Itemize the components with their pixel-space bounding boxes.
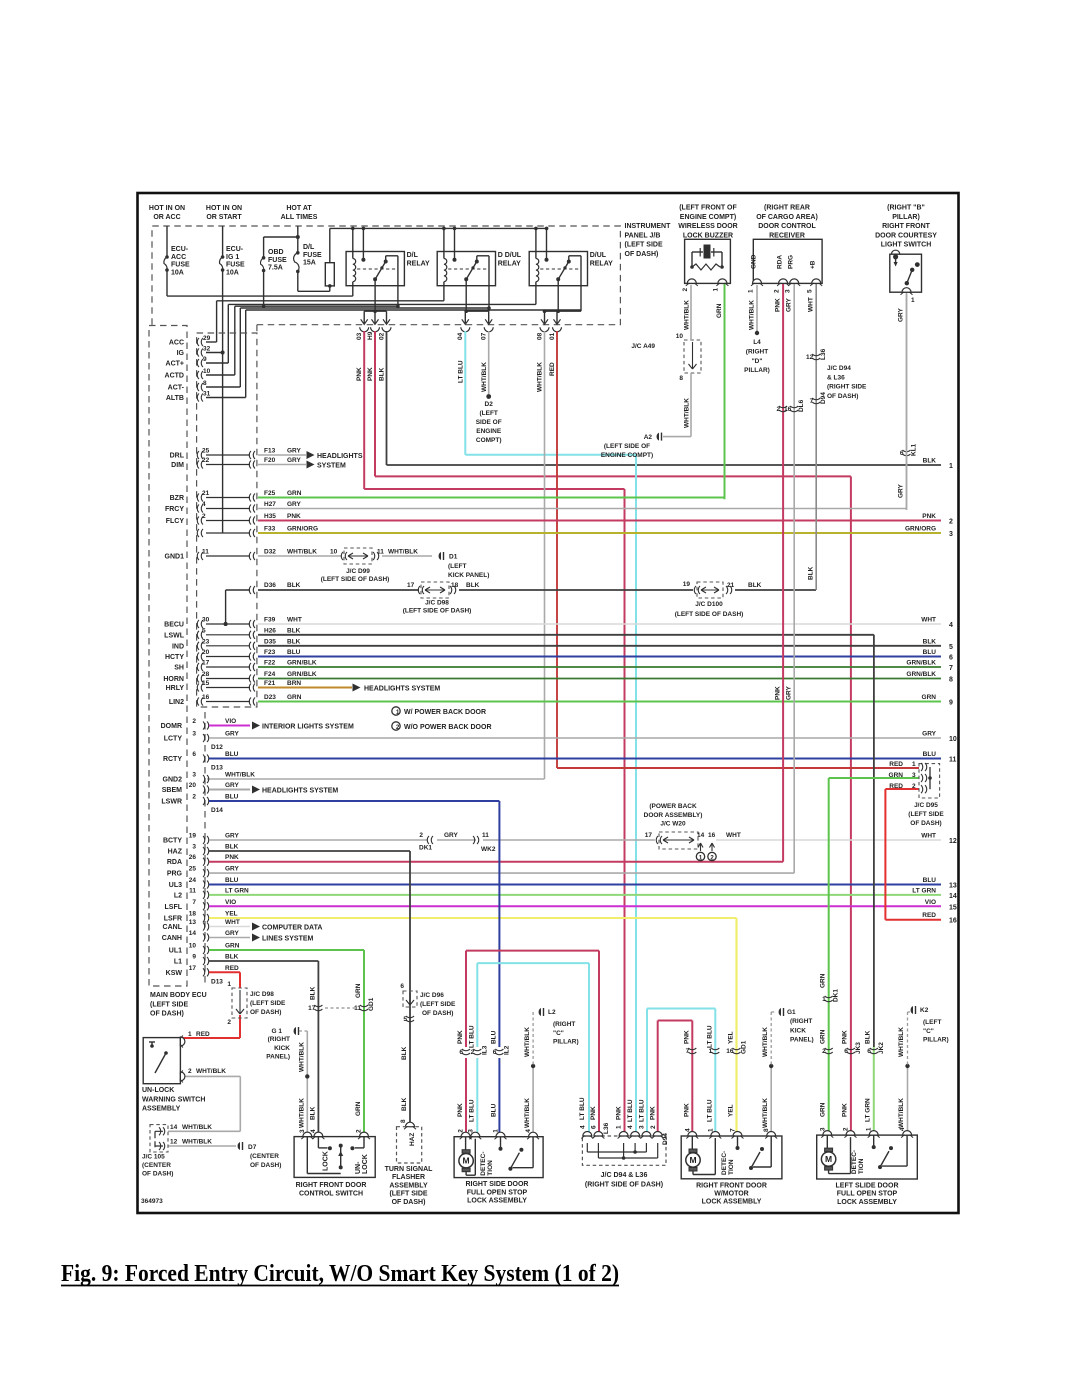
svg-text:PRG: PRG — [788, 255, 795, 269]
svg-text:RELAY: RELAY — [590, 261, 613, 268]
svg-text:8: 8 — [400, 1119, 407, 1123]
svg-text:"C": "C" — [553, 1030, 564, 1037]
svg-text:BLK: BLK — [808, 566, 815, 580]
svg-text:(LEFT SIDE: (LEFT SIDE — [389, 1191, 427, 1198]
svg-text:RIGHT FRONT: RIGHT FRONT — [882, 223, 931, 230]
svg-text:YEL: YEL — [225, 911, 238, 918]
svg-text:PNK: PNK — [590, 1106, 597, 1120]
svg-text:LT BLU: LT BLU — [706, 1025, 713, 1048]
svg-text:DETEC-: DETEC- — [721, 1151, 728, 1175]
svg-text:6: 6 — [591, 1125, 598, 1129]
svg-text:1: 1 — [713, 288, 720, 292]
svg-text:F21: F21 — [264, 680, 276, 687]
svg-text:14: 14 — [949, 893, 957, 900]
svg-text:(RIGHT: (RIGHT — [553, 1021, 575, 1028]
svg-text:1: 1 — [912, 761, 916, 768]
svg-text:GRY: GRY — [225, 833, 240, 840]
svg-text:PNK: PNK — [775, 686, 782, 700]
svg-text:BLK: BLK — [865, 1030, 872, 1044]
svg-text:GND2: GND2 — [163, 777, 183, 784]
svg-text:W/ POWER BACK DOOR: W/ POWER BACK DOOR — [404, 709, 486, 716]
svg-text:WK2: WK2 — [481, 846, 496, 853]
svg-text:TION: TION — [858, 1158, 865, 1174]
svg-text:BLK: BLK — [287, 627, 301, 634]
svg-text:F39: F39 — [264, 617, 276, 624]
svg-text:8: 8 — [679, 375, 683, 382]
svg-text:D94: D94 — [662, 1133, 669, 1145]
svg-text:3: 3 — [192, 731, 196, 738]
svg-text:BLK: BLK — [748, 582, 762, 589]
svg-text:(CENTER: (CENTER — [250, 1153, 279, 1160]
svg-text:UL1: UL1 — [169, 948, 182, 955]
svg-text:9: 9 — [949, 700, 953, 707]
svg-text:VIO: VIO — [225, 899, 236, 906]
svg-text:D12: D12 — [211, 744, 223, 751]
svg-text:(LEFT SIDE: (LEFT SIDE — [250, 1000, 286, 1007]
svg-text:LCTY: LCTY — [164, 736, 183, 743]
svg-text:(LEFT: (LEFT — [479, 410, 497, 417]
svg-text:24: 24 — [189, 877, 197, 884]
svg-text:14: 14 — [697, 832, 705, 839]
svg-text:26: 26 — [189, 854, 197, 861]
svg-text:1: 1 — [911, 297, 915, 304]
svg-text:LT GRN: LT GRN — [225, 887, 249, 894]
svg-text:7: 7 — [686, 1048, 690, 1055]
svg-text:6: 6 — [192, 751, 196, 758]
svg-text:(CENTER: (CENTER — [142, 1162, 171, 1169]
svg-text:CANL: CANL — [163, 924, 183, 931]
svg-text:ACTD: ACTD — [165, 373, 184, 380]
svg-text:PNK: PNK — [457, 1103, 464, 1117]
svg-text:D2: D2 — [485, 401, 494, 408]
svg-text:10: 10 — [189, 943, 197, 950]
svg-text:3: 3 — [912, 772, 916, 779]
svg-text:DOOR COURTESY: DOOR COURTESY — [875, 232, 937, 239]
svg-text:GRN: GRN — [820, 1102, 827, 1117]
svg-text:CANH: CANH — [162, 935, 182, 942]
svg-text:16: 16 — [202, 694, 210, 701]
svg-text:LT BLU: LT BLU — [468, 1099, 475, 1122]
svg-text:10: 10 — [203, 368, 211, 375]
svg-text:5: 5 — [202, 627, 206, 634]
svg-text:3: 3 — [299, 1129, 306, 1133]
svg-text:GRN: GRN — [820, 1029, 827, 1044]
svg-text:6: 6 — [867, 1048, 871, 1055]
svg-text:8: 8 — [949, 677, 953, 684]
svg-text:2: 2 — [471, 1049, 475, 1056]
svg-text:WHT/BLK: WHT/BLK — [524, 1027, 531, 1057]
svg-text:15: 15 — [949, 904, 957, 911]
svg-text:7: 7 — [192, 899, 196, 906]
svg-text:OR START: OR START — [206, 214, 242, 221]
svg-text:FRCY: FRCY — [165, 506, 184, 513]
svg-text:RED: RED — [196, 1031, 210, 1038]
svg-text:KL1: KL1 — [911, 443, 918, 456]
svg-text:2: 2 — [192, 718, 196, 725]
svg-text:OBD: OBD — [268, 249, 284, 256]
svg-text:BLK: BLK — [225, 844, 239, 851]
svg-text:PNK: PNK — [356, 367, 363, 381]
svg-text:BCTY: BCTY — [163, 838, 182, 845]
svg-text:J/C D98: J/C D98 — [425, 600, 449, 607]
svg-text:(RIGHT: (RIGHT — [746, 349, 768, 356]
svg-text:30: 30 — [202, 617, 210, 624]
svg-text:RELAY: RELAY — [407, 261, 430, 268]
svg-text:LSWL: LSWL — [164, 632, 185, 639]
svg-text:PNK: PNK — [457, 1030, 464, 1044]
svg-text:COMPUTER DATA: COMPUTER DATA — [262, 925, 322, 932]
svg-text:F25: F25 — [264, 490, 276, 497]
svg-text:14: 14 — [189, 930, 197, 937]
svg-text:1: 1 — [709, 1048, 713, 1055]
svg-text:3: 3 — [639, 1125, 646, 1129]
svg-text:2: 2 — [356, 1129, 363, 1133]
svg-text:(LEFT: (LEFT — [923, 1019, 941, 1026]
svg-text:6: 6 — [459, 1049, 463, 1056]
svg-text:WHT/BLK: WHT/BLK — [225, 772, 255, 779]
svg-text:ALTB: ALTB — [166, 395, 184, 402]
svg-text:H9: H9 — [367, 331, 374, 340]
svg-text:D7: D7 — [248, 1144, 257, 1151]
svg-text:PILLAR): PILLAR) — [553, 1039, 579, 1046]
svg-text:9: 9 — [192, 954, 196, 961]
svg-text:ACC: ACC — [171, 254, 186, 261]
svg-text:JK3: JK3 — [855, 1042, 862, 1054]
svg-text:J/C 105: J/C 105 — [142, 1154, 165, 1161]
svg-text:ENGINE COMPT): ENGINE COMPT) — [601, 452, 653, 459]
svg-text:G 1: G 1 — [272, 1028, 283, 1035]
svg-text:D14: D14 — [211, 807, 223, 814]
svg-text:1: 1 — [822, 996, 826, 1003]
svg-text:WHT: WHT — [225, 919, 240, 926]
svg-text:K2: K2 — [920, 1007, 929, 1014]
svg-text:(LEFT SIDE: (LEFT SIDE — [420, 1001, 456, 1008]
svg-text:(LEFT SIDE OF DASH): (LEFT SIDE OF DASH) — [321, 576, 390, 583]
svg-text:YEL: YEL — [728, 1104, 735, 1117]
svg-text:GRY: GRY — [922, 731, 937, 738]
svg-text:HRLY: HRLY — [166, 685, 185, 692]
svg-text:10: 10 — [330, 549, 338, 556]
svg-text:6: 6 — [844, 1048, 848, 1055]
svg-text:GRY: GRY — [444, 832, 459, 839]
svg-text:14: 14 — [170, 1124, 178, 1131]
svg-text:ECU-: ECU- — [226, 246, 244, 253]
svg-text:OF DASH): OF DASH) — [142, 1171, 173, 1178]
svg-text:GRY: GRY — [225, 930, 240, 937]
svg-text:LEFT SLIDE DOOR: LEFT SLIDE DOOR — [836, 1183, 899, 1190]
svg-text:11: 11 — [354, 1005, 361, 1012]
svg-text:RECEIVER: RECEIVER — [769, 232, 805, 239]
svg-text:PILLAR): PILLAR) — [744, 367, 770, 374]
svg-text:TION: TION — [728, 1159, 735, 1175]
svg-text:J/C D98: J/C D98 — [250, 991, 274, 998]
svg-text:COMPT): COMPT) — [476, 437, 502, 444]
svg-text:31: 31 — [203, 391, 211, 398]
svg-text:GRN: GRN — [355, 983, 362, 998]
svg-text:LT BLU: LT BLU — [706, 1099, 713, 1122]
svg-text:(RIGHT: (RIGHT — [790, 1018, 812, 1025]
svg-text:7: 7 — [810, 398, 814, 405]
svg-text:12: 12 — [949, 838, 957, 845]
svg-text:BLK: BLK — [309, 986, 316, 1000]
svg-text:PILLAR): PILLAR) — [923, 1037, 949, 1044]
svg-text:4: 4 — [525, 1129, 532, 1133]
svg-text:WHT/BLK: WHT/BLK — [481, 362, 488, 392]
svg-text:(RIGHT REAR: (RIGHT REAR — [764, 205, 810, 212]
svg-text:BLK: BLK — [287, 582, 301, 589]
svg-text:OF CARGO AREA): OF CARGO AREA) — [756, 214, 818, 221]
svg-text:M: M — [825, 1154, 832, 1164]
svg-text:D13: D13 — [211, 765, 223, 772]
svg-text:CONTROL SWITCH: CONTROL SWITCH — [299, 1190, 363, 1197]
svg-text:PNK: PNK — [842, 1103, 849, 1117]
svg-text:2: 2 — [650, 1125, 657, 1129]
svg-text:IG 1: IG 1 — [226, 254, 239, 261]
svg-text:L36: L36 — [820, 348, 827, 360]
svg-text:(LEFT FRONT OF: (LEFT FRONT OF — [679, 205, 737, 212]
svg-text:PNK: PNK — [225, 854, 239, 861]
svg-text:2: 2 — [912, 783, 916, 790]
svg-text:6: 6 — [493, 1049, 497, 1056]
svg-text:2: 2 — [188, 1068, 192, 1075]
svg-text:12: 12 — [170, 1139, 178, 1146]
svg-text:FULL OPEN STOP: FULL OPEN STOP — [467, 1189, 528, 1196]
svg-text:WHT/BLK: WHT/BLK — [762, 1027, 769, 1057]
svg-text:28: 28 — [202, 671, 210, 678]
svg-text:J/C D100: J/C D100 — [695, 601, 723, 608]
svg-text:PNK: PNK — [287, 513, 301, 520]
svg-text:GRN/BLK: GRN/BLK — [287, 671, 317, 678]
svg-text:BLU: BLU — [287, 649, 301, 656]
svg-text:GRY: GRY — [287, 457, 302, 464]
svg-text:BLU: BLU — [923, 751, 937, 758]
svg-text:D D/UL: D D/UL — [498, 252, 522, 259]
svg-text:BLU: BLU — [923, 877, 937, 884]
svg-text:PNK: PNK — [683, 1030, 690, 1044]
svg-text:19: 19 — [683, 581, 691, 588]
svg-text:BLK: BLK — [401, 1097, 408, 1111]
svg-text:D1: D1 — [449, 554, 458, 561]
svg-text:GRY: GRY — [225, 731, 240, 738]
svg-text:SIDE OF: SIDE OF — [476, 419, 502, 426]
svg-text:WHT/BLK: WHT/BLK — [898, 1027, 905, 1057]
svg-text:ACT-: ACT- — [168, 385, 185, 392]
svg-text:D13: D13 — [211, 978, 223, 985]
svg-text:2: 2 — [682, 288, 689, 292]
svg-text:5: 5 — [807, 289, 814, 293]
svg-text:07: 07 — [481, 332, 488, 340]
svg-text:ACC: ACC — [169, 340, 184, 347]
svg-text:10A: 10A — [226, 269, 239, 276]
svg-text:GRN/BLK: GRN/BLK — [287, 660, 317, 667]
svg-text:FUSE: FUSE — [226, 262, 245, 269]
svg-text:UL3: UL3 — [169, 882, 182, 889]
svg-text:MAIN BODY ECU: MAIN BODY ECU — [150, 992, 207, 999]
svg-text:J/C D95: J/C D95 — [914, 802, 938, 809]
svg-text:WHT/BLK: WHT/BLK — [298, 1098, 305, 1128]
svg-text:(LEFT SIDE OF: (LEFT SIDE OF — [604, 443, 650, 450]
svg-text:GRN/BLK: GRN/BLK — [906, 660, 936, 667]
svg-text:IND: IND — [172, 643, 184, 650]
svg-text:LOCK BUZZER: LOCK BUZZER — [683, 232, 733, 239]
svg-text:PNK: PNK — [922, 513, 936, 520]
svg-text:12: 12 — [806, 354, 814, 361]
svg-text:SBEM: SBEM — [162, 787, 182, 794]
svg-text:20: 20 — [189, 782, 197, 789]
svg-text:2: 2 — [776, 406, 780, 413]
svg-text:LT BLU: LT BLU — [627, 1099, 634, 1122]
svg-text:GRN/BLK: GRN/BLK — [906, 671, 936, 678]
svg-text:PNK: PNK — [367, 367, 374, 381]
svg-text:(LEFT SIDE: (LEFT SIDE — [908, 811, 944, 818]
svg-text:D23: D23 — [264, 694, 276, 701]
svg-text:KSW: KSW — [166, 970, 183, 977]
svg-text:HEADLIGHTS SYSTEM: HEADLIGHTS SYSTEM — [364, 686, 440, 693]
svg-text:RDA: RDA — [167, 859, 182, 866]
svg-text:OF DASH): OF DASH) — [625, 251, 659, 258]
svg-text:02: 02 — [378, 332, 385, 340]
svg-text:04: 04 — [457, 332, 464, 340]
svg-text:HEADLIGHTS SYSTEM: HEADLIGHTS SYSTEM — [262, 788, 338, 795]
svg-text:11: 11 — [202, 549, 209, 556]
svg-text:2: 2 — [822, 1048, 826, 1055]
svg-text:HOT IN ON: HOT IN ON — [206, 205, 242, 212]
svg-text:M: M — [689, 1155, 696, 1165]
svg-text:1: 1 — [748, 289, 755, 293]
svg-text:1: 1 — [707, 1128, 714, 1132]
svg-text:LOCK: LOCK — [323, 1151, 330, 1171]
svg-text:HAZ: HAZ — [168, 849, 183, 856]
svg-text:DRL: DRL — [170, 453, 185, 460]
svg-text:15: 15 — [202, 680, 210, 687]
svg-text:DL6: DL6 — [798, 399, 805, 412]
svg-text:16: 16 — [949, 918, 957, 925]
svg-text:BLU: BLU — [923, 649, 937, 656]
svg-text:J/C D94: J/C D94 — [827, 365, 851, 372]
svg-text:1: 1 — [616, 1125, 623, 1129]
svg-text:18: 18 — [451, 582, 459, 589]
svg-text:7: 7 — [730, 1128, 737, 1132]
svg-text:LT BLU: LT BLU — [638, 1099, 645, 1122]
svg-text:PNK: PNK — [842, 1030, 849, 1044]
svg-text:OF DASH): OF DASH) — [422, 1010, 453, 1017]
svg-text:+B: +B — [810, 260, 817, 269]
svg-text:WHT: WHT — [921, 617, 936, 624]
svg-text:INSTRUMENT: INSTRUMENT — [625, 223, 672, 230]
svg-text:VIO: VIO — [225, 718, 236, 725]
svg-text:FULL OPEN STOP: FULL OPEN STOP — [837, 1191, 898, 1198]
svg-text:GRN: GRN — [355, 1101, 362, 1116]
svg-text:DETEC-: DETEC- — [851, 1150, 858, 1174]
svg-text:BLU: BLU — [490, 1103, 497, 1117]
svg-text:DETEC-: DETEC- — [480, 1151, 487, 1175]
svg-text:11: 11 — [482, 832, 489, 839]
svg-text:KICK: KICK — [790, 1027, 806, 1034]
svg-text:BLK: BLK — [466, 582, 480, 589]
svg-text:LINES SYSTEM: LINES SYSTEM — [262, 936, 314, 943]
svg-text:1: 1 — [493, 1129, 500, 1133]
svg-text:17: 17 — [308, 1005, 316, 1012]
svg-text:17: 17 — [202, 660, 210, 667]
svg-text:(RIGHT SIDE OF DASH): (RIGHT SIDE OF DASH) — [585, 1181, 663, 1188]
svg-text:DK1: DK1 — [833, 989, 840, 1002]
svg-text:4: 4 — [899, 1127, 906, 1131]
svg-text:LOCK ASSEMBLY: LOCK ASSEMBLY — [702, 1199, 762, 1206]
svg-text:PNK: PNK — [616, 1106, 623, 1120]
svg-text:BLU: BLU — [225, 794, 239, 801]
svg-text:IL2: IL2 — [503, 1045, 510, 1055]
svg-text:LOCK ASSEMBLY: LOCK ASSEMBLY — [467, 1198, 527, 1205]
svg-text:PNK: PNK — [683, 1103, 690, 1117]
svg-text:D/UL: D/UL — [590, 252, 607, 259]
svg-text:WHT: WHT — [921, 833, 936, 840]
svg-text:22: 22 — [202, 457, 210, 464]
svg-text:FUSE: FUSE — [171, 262, 190, 269]
svg-text:DOMR: DOMR — [161, 723, 182, 730]
svg-text:WHT: WHT — [726, 832, 741, 839]
svg-text:WHT/BLK: WHT/BLK — [684, 300, 691, 330]
svg-text:GRN: GRN — [716, 303, 723, 318]
svg-text:(LEFT SIDE: (LEFT SIDE — [150, 1001, 188, 1008]
svg-text:13: 13 — [189, 919, 197, 926]
svg-text:GRN: GRN — [225, 943, 240, 950]
svg-text:Fig. 9: Forced Entry Circuit,: Fig. 9: Forced Entry Circuit, W/O Smart … — [61, 1261, 619, 1287]
svg-text:BLK: BLK — [287, 638, 301, 645]
svg-text:3: 3 — [467, 1129, 474, 1133]
svg-text:OF DASH): OF DASH) — [250, 1162, 281, 1169]
svg-text:HORN: HORN — [163, 676, 184, 683]
svg-text:H27: H27 — [264, 501, 276, 508]
svg-text:SH: SH — [174, 665, 184, 672]
svg-text:GRY: GRY — [786, 297, 793, 312]
svg-text:6: 6 — [900, 450, 904, 457]
svg-text:BLK: BLK — [379, 367, 386, 381]
svg-text:WHT/BLK: WHT/BLK — [196, 1068, 226, 1075]
svg-text:D36: D36 — [264, 582, 276, 589]
svg-text:GRY: GRY — [287, 448, 302, 455]
svg-text:WHT: WHT — [808, 297, 815, 312]
svg-text:17: 17 — [645, 832, 653, 839]
svg-text:LSWR: LSWR — [161, 799, 182, 806]
svg-text:JK2: JK2 — [878, 1042, 885, 1054]
svg-text:6: 6 — [400, 983, 404, 990]
svg-text:WIRELESS DOOR: WIRELESS DOOR — [678, 223, 738, 230]
svg-text:WHT/BLK: WHT/BLK — [182, 1124, 212, 1131]
svg-text:GRY: GRY — [225, 866, 240, 873]
svg-text:RED: RED — [549, 362, 556, 376]
svg-text:ECU-: ECU- — [171, 246, 189, 253]
svg-text:2: 2 — [192, 794, 196, 801]
svg-text:10: 10 — [949, 736, 957, 743]
svg-text:ENGINE: ENGINE — [476, 428, 502, 435]
svg-text:LIN2: LIN2 — [169, 699, 184, 706]
svg-text:OF DASH): OF DASH) — [910, 820, 941, 827]
svg-text:DIM: DIM — [171, 462, 184, 469]
svg-text:FUSE: FUSE — [303, 252, 322, 259]
svg-text:4: 4 — [580, 1125, 587, 1129]
svg-text:10A: 10A — [171, 269, 184, 276]
svg-text:GRY: GRY — [786, 685, 793, 700]
svg-text:RED: RED — [889, 761, 903, 768]
svg-text:PANEL): PANEL) — [266, 1054, 290, 1061]
svg-text:08: 08 — [536, 332, 543, 340]
svg-text:RED: RED — [889, 783, 903, 790]
svg-text:18: 18 — [189, 911, 197, 918]
svg-text:17: 17 — [407, 582, 415, 589]
svg-text:FLASHER: FLASHER — [392, 1174, 425, 1181]
svg-text:HEADLIGHTS: HEADLIGHTS — [317, 453, 363, 460]
svg-text:OF DASH): OF DASH) — [150, 1011, 184, 1018]
